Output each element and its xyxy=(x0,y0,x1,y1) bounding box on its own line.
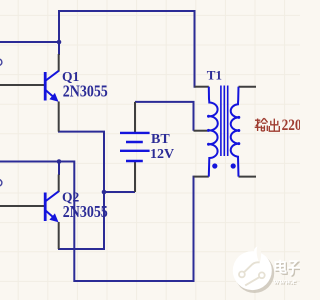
wire base feed Q1 from left edge xyxy=(0,41,60,43)
wire Q2 collector drop xyxy=(58,162,60,176)
svg-text:2N3055: 2N3055 xyxy=(63,81,108,100)
watermark hanzi dian shadow xyxy=(277,261,287,274)
wire right drop of rail to T1 top xyxy=(194,10,196,88)
pin Q1 collector xyxy=(58,54,60,72)
pin Q1 emitter xyxy=(58,102,60,132)
pin T1 secondary top xyxy=(239,86,257,88)
pin Q2 collector xyxy=(58,175,60,193)
svg-text:www.e: www.e xyxy=(274,277,297,286)
watermark url text xyxy=(274,277,298,287)
svg-text:12V: 12V xyxy=(150,147,174,162)
net label output 220V hanzi shu xyxy=(255,118,268,131)
junction dot battery minus node xyxy=(102,190,107,195)
wire Q2 emitter run to battery minus node xyxy=(58,192,104,249)
pin T1 primary bottom xyxy=(194,176,209,178)
watermark logo circle xyxy=(233,246,274,293)
watermark hanzi zi shadow xyxy=(289,263,301,277)
wire battery plus to T1 center tap xyxy=(135,102,194,131)
pin T1 primary center tap xyxy=(194,130,208,132)
watermark hanzi dian xyxy=(275,260,285,273)
transistor Q2 xyxy=(45,191,59,222)
polarity dot secondary xyxy=(231,163,236,168)
junction dot Q2 collector node xyxy=(57,159,62,164)
cut label digit near Q2 xyxy=(0,180,2,187)
transformer T1 core xyxy=(221,86,228,157)
net label output 220V hanzi chu xyxy=(269,119,279,132)
wire left drop to Q1 collector xyxy=(58,10,60,55)
polarity dot primary xyxy=(212,163,217,168)
transistor Q1 xyxy=(45,71,59,102)
pin T1 primary top xyxy=(195,86,209,88)
transformer T1 primary winding xyxy=(207,87,218,177)
pin battery top xyxy=(134,102,136,132)
svg-text:2N3055: 2N3055 xyxy=(63,202,108,221)
pin Q1 base xyxy=(0,84,45,86)
svg-text:T1: T1 xyxy=(207,68,222,83)
pin battery bottom xyxy=(134,162,136,193)
wire battery minus stub xyxy=(104,191,135,193)
pin Q2 emitter xyxy=(58,222,60,249)
junction dot Q1 collector node xyxy=(57,40,62,45)
watermark hanzi zi xyxy=(288,261,300,275)
pin T1 secondary bottom xyxy=(239,176,257,178)
wire Q1 emitter run to battery minus node xyxy=(58,132,104,193)
battery BT plates xyxy=(120,133,150,161)
svg-text:220V: 220V xyxy=(282,115,300,134)
pin Q2 base xyxy=(0,205,45,207)
cut label digit near Q1 xyxy=(0,59,2,66)
svg-text:BT: BT xyxy=(151,132,170,147)
transformer T1 secondary winding xyxy=(231,87,241,177)
wire base feed Q2 from left edge xyxy=(0,161,74,163)
wire top rail xyxy=(59,10,195,12)
wire Q2 net down left side xyxy=(74,161,193,282)
